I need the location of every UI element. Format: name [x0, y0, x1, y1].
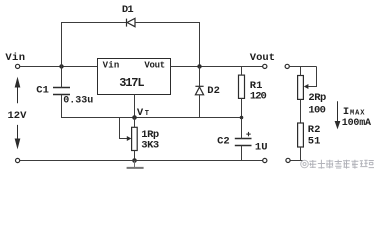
- wire C2 top lead: [241, 118, 243, 139]
- node bottom-left terminal: [16, 158, 20, 162]
- wire Vout rail: [171, 66, 263, 68]
- wiper arrowhead of 2Rp: [304, 84, 309, 89]
- wire R2 bottom lead: [300, 147, 302, 161]
- svg-text:100mA: 100mA: [342, 118, 371, 129]
- resistor R1: [239, 75, 245, 98]
- capacitor C2: [235, 139, 252, 146]
- svg-text:51: 51: [308, 135, 321, 147]
- node junction ADJ: [132, 115, 137, 120]
- svg-text:D1: D1: [122, 4, 134, 16]
- voltage arrow down 12V: [15, 125, 19, 147]
- node junction R1/C2/rail: [240, 116, 244, 120]
- wire up to top rail: [61, 22, 63, 67]
- svg-text:12V: 12V: [8, 110, 28, 122]
- wire 2Rp to R2: [300, 99, 302, 123]
- wire 2Rp wiper branch: [309, 67, 317, 87]
- node right bottom terminal: [286, 158, 290, 162]
- node junction ground: [132, 158, 137, 163]
- wire 2Rp top lead: [300, 67, 302, 76]
- svg-text:C2: C2: [217, 136, 230, 148]
- op-amp U1 regulator 317L box: [98, 59, 171, 95]
- wire 1Rp top lead: [134, 118, 136, 128]
- wire R1 bottom lead: [241, 98, 243, 117]
- node junction Vin/C1/D1: [59, 64, 63, 68]
- capacitor C1: [53, 88, 70, 95]
- svg-text:Vin: Vin: [103, 61, 120, 71]
- polarity plus of C2: [246, 132, 250, 136]
- svg-text:Vout: Vout: [144, 61, 164, 71]
- wiper arrowhead of 1Rp: [127, 136, 132, 141]
- wire 1Rp bottom lead: [134, 151, 136, 161]
- wire top rail right segment: [135, 22, 200, 24]
- svg-text:100: 100: [308, 105, 325, 117]
- voltage arrow up 12V: [15, 79, 19, 104]
- svg-text:T: T: [145, 110, 149, 118]
- svg-text:C1: C1: [36, 84, 49, 96]
- svg-text:1U: 1U: [255, 142, 268, 154]
- svg-text:Vout: Vout: [250, 52, 275, 64]
- wire ADJ rail: [61, 117, 242, 119]
- wire Vin rail: [20, 66, 98, 68]
- svg-text:Vin: Vin: [5, 52, 25, 64]
- svg-text:317L: 317L: [119, 76, 144, 90]
- wire wiper branch: [120, 118, 128, 139]
- wire R1 top lead: [241, 67, 243, 76]
- potentiometer 1Rp: [132, 127, 138, 150]
- wire C2 bottom lead: [241, 146, 243, 161]
- wire bottom rail: [20, 160, 263, 162]
- wire right top: [289, 66, 316, 68]
- wire D2 bottom lead: [199, 95, 201, 118]
- svg-text:D2: D2: [207, 85, 220, 97]
- wire down to Vout rail: [199, 22, 201, 67]
- wire D2 top lead: [199, 67, 201, 87]
- node Vin terminal: [16, 64, 20, 68]
- diode D2: [195, 86, 203, 95]
- ground: [134, 161, 136, 168]
- wire top rail left segment: [61, 22, 127, 24]
- watermark juejin: [301, 160, 309, 168]
- wire right bottom: [290, 160, 303, 162]
- node right top terminal: [285, 64, 289, 68]
- wire C1 top lead: [61, 67, 63, 88]
- wire C1 bottom lead: [61, 95, 63, 118]
- node bottom-right terminal: [263, 158, 267, 162]
- potentiometer 2Rp: [298, 76, 304, 100]
- node junction D1/Vout: [197, 64, 201, 68]
- node Vout terminal: [263, 64, 267, 68]
- svg-text:MAX: MAX: [350, 110, 365, 118]
- svg-text:0.33u: 0.33u: [63, 96, 93, 107]
- current arrow Imax: [335, 101, 339, 128]
- svg-text:120: 120: [250, 91, 267, 103]
- svg-text:3K3: 3K3: [141, 140, 159, 152]
- svg-text:I: I: [343, 106, 349, 118]
- wire ADJ pin: [134, 95, 136, 118]
- resistor R2: [298, 123, 304, 147]
- svg-text:2Rp: 2Rp: [308, 92, 326, 104]
- diode D1: [127, 18, 136, 26]
